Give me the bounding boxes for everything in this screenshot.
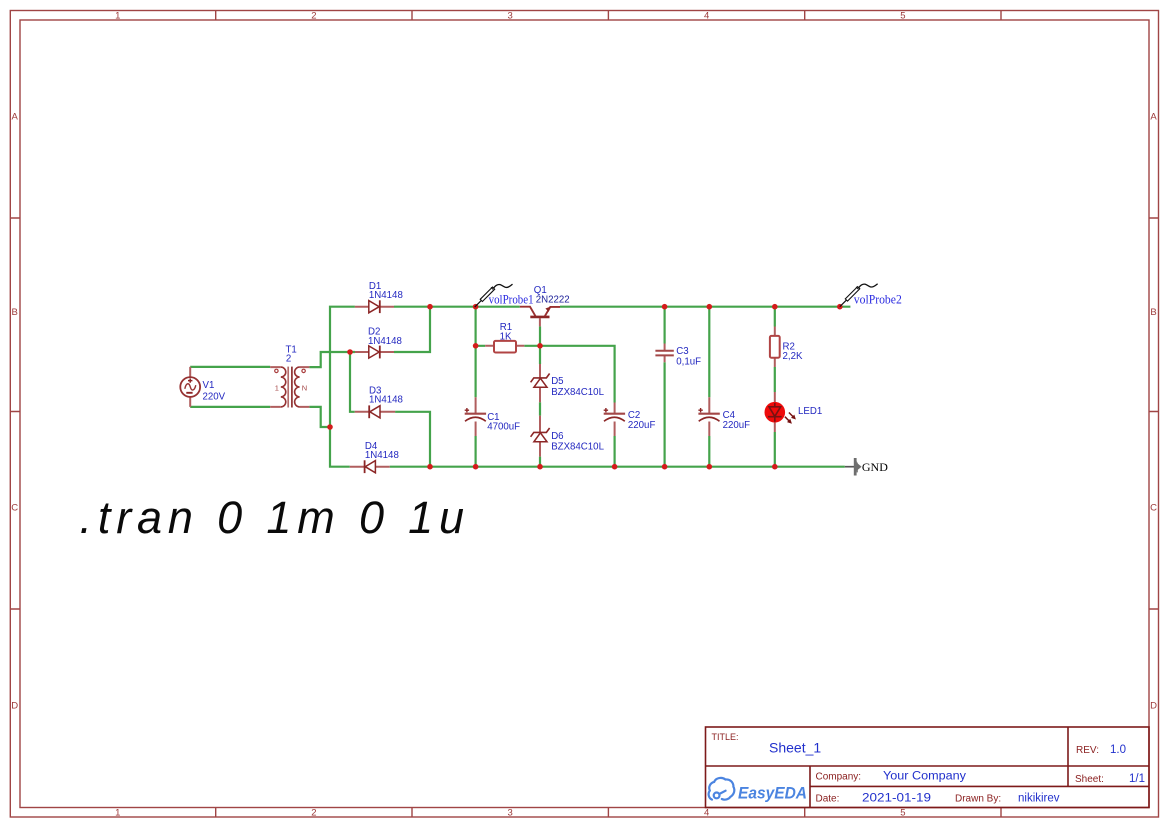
svg-text:Sheet_1: Sheet_1	[769, 740, 821, 756]
wire C4 branch	[708, 307, 710, 467]
svg-text:1K: 1K	[500, 331, 512, 342]
svg-text:D5: D5	[551, 376, 563, 387]
svg-text:1N4148: 1N4148	[369, 290, 403, 301]
diode D3	[355, 386, 403, 419]
wire left vertical bus	[330, 307, 355, 467]
svg-text:2N2222: 2N2222	[536, 294, 570, 305]
svg-text:B: B	[12, 307, 18, 318]
svg-text:D: D	[11, 701, 18, 712]
wire T1 secondary bottom to node	[309, 407, 330, 427]
capacitor C1	[465, 397, 520, 436]
resistor R2	[770, 327, 803, 368]
svg-text:BZX84C10L: BZX84C10L	[551, 387, 604, 398]
wire bottom rail	[390, 466, 845, 468]
svg-text:GND: GND	[862, 462, 888, 474]
svg-text:nikikirev: nikikirev	[1018, 793, 1060, 805]
svg-text:1N4148: 1N4148	[369, 395, 403, 406]
svg-text:LED1: LED1	[798, 406, 822, 417]
svg-text:Company:: Company:	[816, 772, 862, 783]
wire T1 secondary top to D2 row	[309, 352, 355, 367]
svg-text:1N4148: 1N4148	[368, 336, 402, 347]
LED LED1	[765, 392, 823, 432]
svg-text:D6: D6	[551, 431, 563, 442]
svg-text:TITLE:: TITLE:	[712, 732, 739, 742]
svg-text:A: A	[12, 112, 19, 123]
svg-text:N: N	[302, 383, 307, 392]
transistor Q1	[520, 285, 570, 326]
svg-text:B: B	[1150, 307, 1156, 318]
wire Q1 base	[539, 326, 541, 345]
diode D4	[350, 441, 399, 473]
diode D2	[355, 327, 402, 359]
wire top rail	[394, 306, 850, 308]
svg-text:REV:: REV:	[1076, 745, 1099, 756]
capacitor C3	[655, 344, 701, 368]
svg-text:volProbe1: volProbe1	[489, 292, 534, 306]
svg-text:5: 5	[900, 11, 905, 22]
svg-text:220uF: 220uF	[723, 420, 751, 431]
svg-text:2: 2	[311, 808, 316, 819]
svg-text:4700uF: 4700uF	[487, 422, 520, 433]
svg-text:volProbe2: volProbe2	[854, 292, 902, 306]
svg-text:.tran 0 1m 0 1u: .tran 0 1m 0 1u	[80, 492, 470, 543]
wire zener chain	[539, 346, 541, 467]
svg-text:2: 2	[286, 354, 291, 365]
svg-text:C: C	[1150, 503, 1157, 514]
svg-text:EasyEDA: EasyEDA	[738, 784, 807, 803]
wire D2 node down to D3	[350, 352, 355, 412]
svg-text:2: 2	[311, 11, 316, 22]
transformer T1	[270, 344, 309, 407]
svg-text:Your Company: Your Company	[883, 771, 966, 783]
svg-text:1N4148: 1N4148	[365, 450, 399, 461]
ground GND	[845, 458, 888, 476]
svg-text:0,1uF: 0,1uF	[676, 356, 701, 367]
svg-text:Drawn By:: Drawn By:	[955, 794, 1001, 805]
svg-text:3: 3	[508, 808, 513, 819]
svg-text:4: 4	[704, 11, 709, 22]
svg-text:V1: V1	[203, 380, 215, 391]
diode D1	[355, 281, 403, 313]
wire C3 branch	[663, 307, 665, 467]
voltage probe volProbe1	[475, 284, 534, 307]
voltage source V1	[180, 367, 225, 407]
svg-text:A: A	[1150, 112, 1157, 123]
wire R1 row	[476, 346, 615, 467]
resistor R1	[485, 322, 524, 352]
svg-text:1.0: 1.0	[1110, 744, 1126, 756]
svg-text:Date:: Date:	[816, 794, 840, 805]
svg-text:D: D	[1150, 701, 1157, 712]
wire D2 output up to D1 row	[394, 307, 430, 352]
junction node dots	[327, 304, 842, 470]
svg-text:1: 1	[275, 383, 279, 392]
EasyEDA logo	[709, 778, 735, 800]
svg-text:3: 3	[508, 11, 513, 22]
svg-text:2021-01-19: 2021-01-19	[862, 793, 931, 805]
zener diode D5	[531, 364, 605, 402]
capacitor C4	[698, 397, 750, 436]
svg-text:4: 4	[704, 808, 709, 819]
svg-text:1: 1	[115, 11, 120, 22]
wire V1 top to T1	[190, 366, 270, 368]
wire R2 LED branch	[774, 307, 776, 467]
svg-text:220uF: 220uF	[628, 420, 656, 431]
voltage probe volProbe2	[840, 284, 902, 307]
svg-text:1: 1	[115, 808, 120, 819]
svg-text:1/1: 1/1	[1129, 773, 1145, 785]
svg-text:BZX84C10L: BZX84C10L	[551, 442, 604, 453]
wire C1 branch	[475, 307, 477, 467]
wire D3 output down to bottom rail	[395, 412, 430, 467]
capacitor C2	[604, 403, 656, 437]
svg-text:2,2K: 2,2K	[783, 351, 803, 362]
svg-text:C: C	[11, 503, 18, 514]
wire V1 bottom to T1	[190, 406, 270, 408]
svg-text:Sheet:: Sheet:	[1075, 774, 1104, 785]
zener diode D6	[531, 416, 605, 457]
svg-text:5: 5	[900, 808, 905, 819]
svg-text:220V: 220V	[203, 392, 226, 403]
